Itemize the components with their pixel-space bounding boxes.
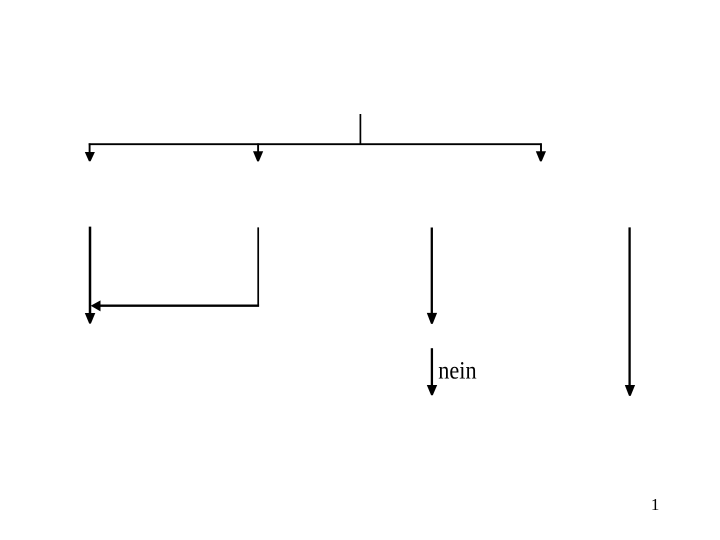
svg-text:nein: nein	[438, 358, 477, 385]
arrow: right branch down from distribution line	[536, 143, 546, 161]
wire: elbow arrow horizontal segment with left arrowhead	[91, 300, 259, 311]
arrow: long vertical arrow far right	[625, 227, 635, 396]
arrow: long vertical arrow far left	[85, 227, 96, 324]
wire: horizontal distribution line	[89, 143, 542, 145]
wire: elbow arrow vertical segment (second column)	[257, 227, 259, 305]
svg-text:1: 1	[651, 495, 660, 514]
arrow: middle branch down from distribution line	[253, 143, 263, 161]
wire: top center vertical stub	[359, 114, 361, 145]
arrow: short "nein" arrow below third column	[427, 348, 437, 395]
arrow: long vertical arrow third column	[427, 228, 437, 324]
arrow: left branch down from distribution line	[85, 143, 95, 161]
